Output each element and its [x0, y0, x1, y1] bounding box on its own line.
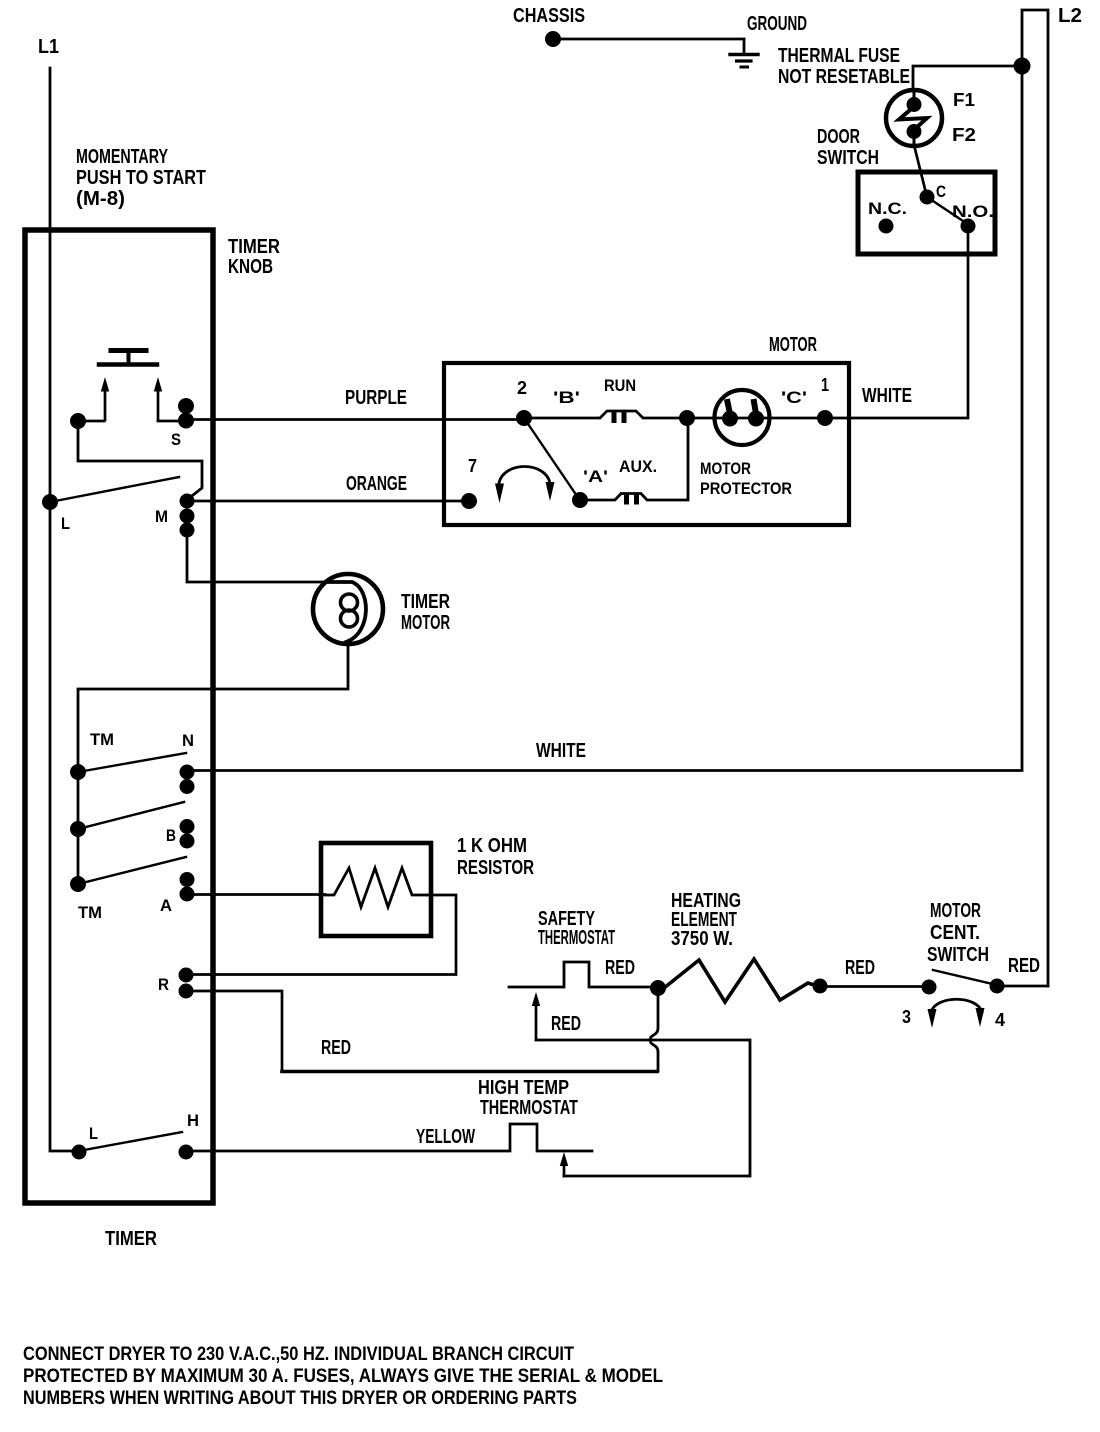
- svg-text:TIMER: TIMER: [401, 591, 450, 613]
- svg-text:F1: F1: [953, 90, 975, 110]
- door switch blade: [927, 197, 966, 223]
- timer blade L-M: [50, 477, 179, 502]
- svg-text:PUSH TO START: PUSH TO START: [76, 167, 206, 189]
- timer box: [25, 230, 213, 1203]
- svg-text:RED: RED: [321, 1037, 351, 1059]
- timer motor: [313, 574, 383, 644]
- svg-text:RED: RED: [845, 957, 875, 979]
- wire heater to cent switch: [828, 985, 922, 988]
- junction dot heater left: [650, 980, 666, 996]
- motor cent switch terminal 4: [990, 979, 1005, 994]
- motor cent switch blade: [933, 970, 997, 985]
- wire right arrow to contact S: [158, 420, 182, 423]
- wire RED from R: [193, 991, 282, 1071]
- svg-text:THERMOSTAT: THERMOSTAT: [480, 1097, 578, 1119]
- timer blade TM-N: [78, 753, 186, 772]
- svg-text:CHASSIS: CHASSIS: [513, 5, 585, 27]
- wire resistor to contact R: [194, 895, 456, 975]
- wire dot to left arrow: [78, 420, 104, 423]
- svg-text:NOT RESETABLE: NOT RESETABLE: [778, 66, 910, 88]
- ground: [730, 39, 758, 67]
- wire thermal fuse to L2: [913, 66, 1022, 90]
- svg-text:3: 3: [902, 1007, 911, 1027]
- resistor zigzag: [325, 868, 427, 907]
- svg-text:L1: L1: [38, 36, 59, 58]
- wire WHITE: [194, 769, 1022, 772]
- svg-text:YELLOW: YELLOW: [416, 1126, 475, 1148]
- svg-text:MOTOR: MOTOR: [700, 459, 751, 478]
- svg-text:NUMBERS WHEN WRITING ABOUT THI: NUMBERS WHEN WRITING ABOUT THIS DRYER OR…: [23, 1388, 577, 1409]
- contact S dots: [178, 398, 194, 414]
- svg-text:B: B: [166, 826, 176, 845]
- safety thermostat arrow: [532, 992, 540, 1040]
- junction dot L: [42, 494, 58, 510]
- timer blade TM-A: [78, 857, 186, 884]
- wire hop from junction down: [650, 994, 658, 1071]
- svg-text:L2: L2: [1058, 5, 1082, 27]
- motor terminal 7: [461, 493, 477, 509]
- door switch terminal N.C.: [879, 219, 894, 234]
- svg-text:M: M: [155, 507, 168, 526]
- wire cent switch to L2: [1004, 985, 1048, 988]
- svg-text:F2: F2: [952, 125, 976, 145]
- svg-text:N: N: [182, 731, 194, 750]
- thermal fuse F1-F2: [886, 90, 942, 146]
- svg-text:TM: TM: [90, 730, 114, 749]
- svg-text:N.O.: N.O.: [952, 202, 994, 221]
- svg-text:TIMER: TIMER: [105, 1228, 157, 1250]
- svg-text:7: 7: [468, 456, 477, 476]
- contact R dots: [179, 968, 194, 983]
- svg-text:MOMENTARY: MOMENTARY: [76, 146, 168, 168]
- chassis terminal dot: [545, 31, 561, 47]
- svg-text:RUN: RUN: [604, 376, 636, 395]
- svg-text:THERMOSTAT: THERMOSTAT: [538, 927, 615, 949]
- svg-text:PROTECTED BY MAXIMUM 30 A. FUS: PROTECTED BY MAXIMUM 30 A. FUSES, ALWAYS…: [23, 1366, 663, 1387]
- wire YELLOW and high temp thermostat: [193, 1124, 592, 1151]
- svg-text:'C': 'C': [781, 388, 807, 407]
- svg-text:1 K OHM: 1 K OHM: [457, 835, 527, 857]
- run winding: [531, 411, 680, 423]
- aux winding: [588, 418, 688, 505]
- door switch terminal C: [920, 190, 935, 205]
- contact N dots: [180, 765, 195, 780]
- svg-text:'B': 'B': [553, 388, 580, 407]
- svg-text:AUX.: AUX.: [619, 457, 657, 476]
- svg-text:THERMAL FUSE: THERMAL FUSE: [778, 45, 900, 67]
- cent switch arrow: [928, 999, 985, 1028]
- svg-text:GROUND: GROUND: [747, 13, 807, 35]
- wire A to resistor: [194, 893, 325, 896]
- svg-text:A: A: [160, 896, 172, 915]
- motor blade 2-A: [524, 418, 579, 499]
- svg-text:RED: RED: [605, 957, 635, 979]
- push button M-8: [99, 351, 162, 421]
- wire fuse to door switch common: [914, 145, 927, 197]
- svg-text:KNOB: KNOB: [228, 256, 273, 278]
- svg-text:DOOR: DOOR: [817, 126, 860, 148]
- contact A dots: [180, 872, 195, 887]
- timer blade TM-B: [78, 802, 184, 829]
- svg-text:C: C: [936, 182, 946, 201]
- wire chassis to ground: [560, 38, 744, 41]
- svg-text:CONNECT DRYER TO 230 V.A.C.,50: CONNECT DRYER TO 230 V.A.C.,50 HZ. INDIV…: [23, 1344, 574, 1365]
- contact B dots: [180, 819, 195, 834]
- svg-text:R: R: [158, 975, 169, 994]
- wire timer motor to TM chain: [78, 644, 348, 766]
- motor cent switch terminal 3: [922, 980, 937, 995]
- svg-text:TM: TM: [78, 903, 102, 922]
- high temp arrow: [560, 1152, 568, 1176]
- svg-text:HIGH TEMP: HIGH TEMP: [478, 1077, 569, 1099]
- contact TM dots chain: [70, 764, 86, 892]
- svg-text:SWITCH: SWITCH: [927, 944, 989, 966]
- door switch terminal N.O.: [961, 219, 976, 234]
- push button left contact dot: [70, 413, 86, 429]
- wire L2 bus: [1022, 10, 1048, 986]
- wire RED horizontal: [282, 1070, 657, 1074]
- svg-text:PROTECTOR: PROTECTOR: [700, 479, 792, 498]
- contact M dots: [180, 494, 195, 509]
- safety thermostat: [509, 962, 651, 987]
- wire safety bottom to high temp: [536, 1040, 750, 1176]
- contact H dot: [179, 1145, 194, 1160]
- wire M to timer motor: [187, 537, 326, 582]
- junction dot at L2: [1014, 58, 1031, 75]
- svg-text:CENT.: CENT.: [930, 922, 980, 944]
- wire N.O. to motor terminal 1: [832, 233, 968, 418]
- svg-text:1: 1: [821, 375, 829, 395]
- svg-text:N.C.: N.C.: [868, 199, 907, 218]
- svg-text:L: L: [89, 1124, 98, 1143]
- motor terminal 1: [817, 410, 833, 426]
- wire junction to terminal 1: [694, 417, 820, 420]
- svg-text:MOTOR: MOTOR: [769, 334, 817, 356]
- wire PURPLE: [194, 418, 518, 421]
- svg-text:S: S: [171, 430, 181, 449]
- contact L dot bottom: [72, 1145, 87, 1160]
- svg-text:PURPLE: PURPLE: [345, 387, 407, 409]
- svg-text:SWITCH: SWITCH: [817, 147, 879, 169]
- resistor 1K box: [321, 843, 431, 936]
- motor protector: [715, 390, 770, 445]
- svg-text:2: 2: [517, 378, 527, 398]
- svg-text:(M-8): (M-8): [76, 188, 125, 210]
- svg-text:WHITE: WHITE: [862, 385, 912, 407]
- svg-text:TIMER: TIMER: [228, 236, 280, 258]
- svg-text:MOTOR: MOTOR: [401, 612, 450, 634]
- motor box: [444, 363, 849, 525]
- svg-text:L: L: [61, 514, 70, 533]
- svg-text:'A': 'A': [583, 467, 608, 486]
- svg-text:H: H: [187, 1111, 199, 1130]
- door switch box: [858, 172, 995, 254]
- wire push contact down to M: [78, 421, 202, 499]
- wire L1: [50, 68, 72, 1151]
- reversing arrow: [495, 467, 555, 504]
- wire ORANGE: [194, 500, 462, 503]
- heating element: [664, 959, 828, 1002]
- svg-text:RED: RED: [551, 1013, 581, 1035]
- junction dot run-aux: [679, 410, 695, 426]
- svg-text:MOTOR: MOTOR: [930, 900, 981, 922]
- motor terminal 2: [516, 410, 532, 426]
- svg-text:3750 W.: 3750 W.: [671, 928, 733, 950]
- svg-text:4: 4: [995, 1010, 1005, 1030]
- motor terminal A: [572, 492, 588, 508]
- svg-text:ORANGE: ORANGE: [346, 473, 407, 495]
- svg-text:WHITE: WHITE: [536, 740, 586, 762]
- svg-text:RED: RED: [1008, 955, 1040, 977]
- timer blade L-H: [84, 1132, 182, 1150]
- svg-text:RESISTOR: RESISTOR: [457, 857, 534, 879]
